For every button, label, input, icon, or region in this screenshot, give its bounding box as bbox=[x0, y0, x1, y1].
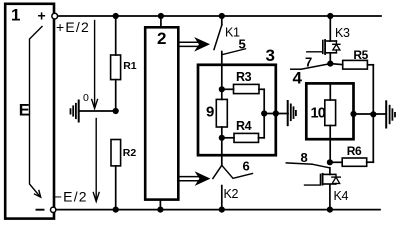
switch 7 bbox=[291, 68, 301, 70]
svg-text:0: 0 bbox=[83, 92, 89, 104]
switch K2 bbox=[221, 155, 223, 165]
ground G1 at node 0 bbox=[78, 101, 80, 122]
wire block3 center top bbox=[221, 65, 223, 100]
svg-text:3: 3 bbox=[266, 46, 275, 65]
resistor R6 bbox=[330, 161, 342, 163]
control arrow to K1 bbox=[179, 42, 199, 46]
wire block2 top bbox=[160, 16, 162, 27]
switch 8 bbox=[286, 163, 312, 164]
junction dot R6 tap bbox=[327, 159, 333, 165]
svg-text:8: 8 bbox=[301, 150, 308, 165]
junction dot rail/R1 bbox=[113, 13, 119, 19]
wire bottom rail -E/2 bbox=[56, 209, 380, 211]
wire block4 to ground G3 bbox=[354, 113, 387, 115]
source E arrow inside block 1 bbox=[30, 27, 43, 197]
K4 drain bar bbox=[323, 173, 336, 175]
svg-text:K3: K3 bbox=[335, 26, 350, 40]
K4 body diode bbox=[335, 174, 337, 184]
junction dot K3/R5 bbox=[327, 61, 333, 67]
junction dot 0/R1R2 bbox=[113, 108, 119, 114]
resistor R2 bbox=[111, 140, 121, 166]
resistor R5 bbox=[330, 64, 342, 65]
resistor R3 bbox=[222, 88, 234, 90]
voltage arrow 0 to -E/2 bbox=[95, 119, 97, 199]
svg-text:K2: K2 bbox=[224, 187, 239, 201]
svg-text:1: 1 bbox=[11, 6, 20, 25]
terminal 5 lead line bbox=[223, 49, 246, 55]
voltage arrow +E/2 to 0 bbox=[94, 21, 96, 106]
terminal node + (circle) bbox=[52, 13, 58, 19]
svg-text:R5: R5 bbox=[353, 48, 368, 62]
K4 source bar bbox=[323, 183, 336, 185]
svg-text:R6: R6 bbox=[347, 144, 362, 158]
svg-text:R3: R3 bbox=[236, 70, 252, 84]
svg-text:9: 9 bbox=[206, 104, 214, 121]
junction dot R4 tap bbox=[219, 135, 225, 141]
resistor R1 bbox=[115, 16, 117, 55]
K4 gate bar bbox=[320, 174, 322, 184]
terminal node - (circle) bbox=[51, 207, 56, 212]
control block 2 bbox=[145, 27, 178, 199]
K3 body diode bbox=[335, 41, 337, 53]
divider block 3 bbox=[198, 65, 276, 155]
terminal 6 lead line bbox=[222, 165, 253, 178]
junction dot block4 right edge bbox=[350, 111, 356, 117]
voltage source block 1 bbox=[5, 4, 54, 219]
wire block2 bottom bbox=[159, 200, 161, 210]
wire block3 to ground G2 bbox=[264, 113, 288, 115]
svg-text:+: + bbox=[38, 8, 46, 24]
wire K4 source to rail bbox=[329, 185, 331, 210]
wire R3-R4 right connector bbox=[263, 89, 265, 138]
K4 channel bar bbox=[322, 174, 324, 185]
K3 gate bar bbox=[322, 41, 324, 54]
wire top rail +E/2 bbox=[58, 15, 382, 17]
resistor R4 bbox=[222, 137, 234, 139]
wire R6 right up bbox=[372, 114, 374, 162]
switch K1 bbox=[221, 16, 223, 25]
ground G2 bbox=[287, 101, 289, 125]
svg-text:R4: R4 bbox=[236, 119, 252, 133]
svg-text:2: 2 bbox=[157, 29, 166, 48]
svg-text:E: E bbox=[19, 101, 30, 119]
svg-text:4: 4 bbox=[293, 69, 303, 88]
svg-text:+E/2: +E/2 bbox=[56, 19, 90, 35]
transistor K3 bbox=[329, 16, 331, 41]
wire block4 center top bbox=[329, 83, 331, 100]
svg-text:K4: K4 bbox=[334, 189, 349, 203]
K3 gate lead bbox=[307, 51, 323, 53]
minus sign inside block 1 bbox=[37, 209, 44, 211]
K3 drain bar bbox=[325, 40, 336, 42]
K3 source bar bbox=[325, 52, 336, 54]
svg-text:7: 7 bbox=[305, 55, 312, 70]
junction dot on block3 edge bbox=[273, 110, 279, 116]
junction dot connector mid bbox=[261, 110, 267, 116]
resistor 10 bbox=[325, 100, 336, 126]
junction dot R2/bottom rail bbox=[113, 207, 119, 213]
K4 gate lead bbox=[305, 184, 321, 186]
ground G3 bbox=[385, 101, 387, 127]
junction dot R3 tap bbox=[219, 86, 225, 92]
svg-text:−E/2: −E/2 bbox=[54, 189, 88, 205]
transistor K4 bbox=[329, 168, 331, 175]
control arrow to K2 bbox=[179, 177, 199, 181]
wire node 0 line bbox=[79, 110, 116, 112]
K3 channel bar bbox=[324, 40, 326, 54]
junction dot R5R6 line bbox=[370, 111, 376, 117]
converter block 4 bbox=[306, 83, 353, 139]
svg-text:R1: R1 bbox=[123, 60, 137, 72]
svg-text:6: 6 bbox=[243, 159, 250, 174]
svg-text:10: 10 bbox=[311, 106, 326, 122]
svg-text:R2: R2 bbox=[123, 147, 137, 159]
resistor 9 bbox=[216, 99, 227, 127]
svg-text:5: 5 bbox=[239, 37, 246, 52]
wire R5 right down bbox=[372, 65, 374, 115]
